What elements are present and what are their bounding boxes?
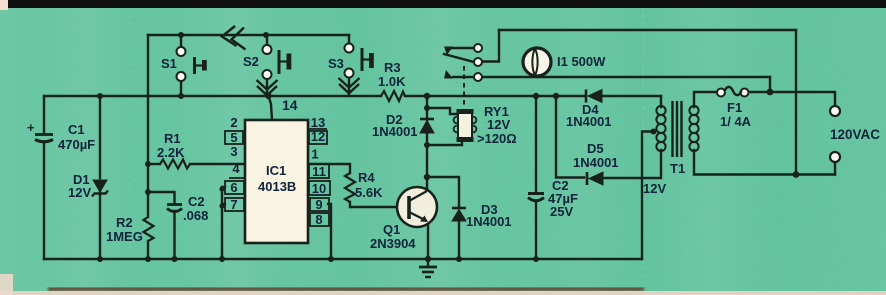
svg-text:8: 8 [315,212,322,227]
transformer T1 secondary winding [656,106,665,151]
svg-text:25V: 25V [550,204,573,219]
svg-text:T1: T1 [670,161,685,176]
resistor R4 [345,173,355,202]
wire: relay NC contact stub [452,47,474,49]
svg-text:5.6K: 5.6K [355,185,383,200]
wire-break chevrons on top rail [222,26,246,50]
transformer T1 primary winding [689,106,698,151]
relay contacts [444,44,482,81]
svg-text:14: 14 [282,97,298,113]
wire: lamp line drop to fuse junction [769,77,771,92]
pushbutton S2 [263,45,292,79]
pin 13 underline [309,128,327,130]
svg-text:Q1: Q1 [383,222,400,237]
svg-text:F1: F1 [727,100,742,115]
junction pins 6-7 ground [219,256,225,262]
capacitor C2 47uF [528,194,544,201]
svg-text:R4: R4 [358,170,375,185]
svg-text:1.0K: 1.0K [378,74,406,89]
svg-text:120VAC: 120VAC [830,127,880,142]
wire: junction to 120VAC top terminal [770,92,835,106]
wire: relay armature arm [444,54,474,62]
junction primary bottom / terminal [793,171,800,178]
wire: D3 branch [427,177,459,208]
wire: relay common to top rail [482,30,499,62]
svg-text:4013B: 4013B [258,179,296,194]
svg-text:7: 7 [230,197,237,212]
wire: C2 47uF branch [535,96,537,193]
junction D1 top [97,93,103,99]
wire: D1 branch [99,96,101,178]
capacitor C2 .068 [167,205,182,212]
pushbutton S1 [177,47,207,81]
svg-text:S1: S1 [161,56,177,71]
wire: left trunk with C1 [43,96,45,134]
junction D2 rail tap [424,93,430,99]
wire: RC node vertical from top rail [147,35,149,164]
svg-text:IC1: IC1 [266,163,286,178]
svg-text:13: 13 [311,115,325,130]
junction C2 47uF top [533,93,539,99]
wire: S2 stubs [266,35,268,45]
bottom strips [0,291,886,295]
transformer T1 core [673,101,682,157]
svg-text:I1 500W: I1 500W [557,54,606,69]
junction S1 top on rail [178,32,184,38]
svg-text:C2: C2 [188,194,205,209]
pin 6 box [225,181,244,194]
pin 12 box [309,131,327,144]
pin 7 box [225,198,244,211]
svg-text:R1: R1 [164,131,181,146]
svg-text:S3: S3 [328,56,344,71]
junction pin 7 stub [219,203,224,208]
junction R2 bottom [145,256,151,262]
svg-text:R3: R3 [384,60,401,75]
wire: pin14 riser [269,96,273,120]
junction D5 branch top [553,93,559,99]
IC1 4013B box [245,120,308,243]
svg-text:1N4001: 1N4001 [573,155,619,170]
svg-text:1N4001: 1N4001 [566,114,612,129]
svg-text:D5: D5 [587,141,604,156]
diode D5 [587,172,603,185]
svg-text:1: 1 [311,147,318,162]
svg-text:S2: S2 [243,54,259,69]
svg-text:5: 5 [230,130,237,145]
wire: rail from D4 to transformer [602,95,661,97]
junction C2 .068 branch [145,189,151,195]
svg-text:4: 4 [232,161,240,176]
wire: R4 to Q1 base [350,202,408,207]
svg-text:11: 11 [312,164,326,179]
wire: pin 1 to R4 [308,164,350,173]
wire: lamp line from relay NO contact [482,76,770,78]
svg-text:1N4001: 1N4001 [466,214,512,229]
wire: top-right rail [499,29,796,31]
resistor R2 [144,217,154,241]
wire: Q1 collector riser with D2 [426,133,428,190]
svg-text:1MEG: 1MEG [106,229,143,244]
wire: fuse to junction [748,91,770,93]
diode D4 [586,90,602,103]
junction RY1 coil top tap [424,105,430,111]
junction Q1 collector node [424,174,430,180]
pin 5 box [225,131,243,144]
wire: top-left rail [148,34,349,36]
wire: D5 branch vertical [556,96,584,178]
svg-text:6: 6 [230,180,237,195]
capacitor C1 [35,135,53,142]
svg-text:2N3904: 2N3904 [370,236,416,251]
120VAC terminals [830,106,840,116]
svg-text:9: 9 [315,197,322,212]
wire: D5 to secondary bottom [603,150,661,178]
wire: main +V rail right of R3 [405,95,585,97]
junction S2 bottom / pin14 [265,93,271,99]
wire: pins 6,7 to ground rail [222,187,225,259]
lamp I1 [523,48,551,76]
wire: center tap to ground rail [642,132,654,260]
top black bar [8,0,886,8]
junction RY1 coil bottom tap [424,142,430,148]
svg-text:.068: .068 [183,208,208,223]
junction T1 center tap [651,129,657,135]
diode D3 [452,208,466,221]
chevrons below S2 [257,80,278,95]
svg-text:12V: 12V [487,117,510,132]
svg-text:12V: 12V [643,181,666,196]
junction S2 top on rail [263,32,269,38]
svg-text:1/ 4A: 1/ 4A [720,114,752,129]
pushbutton S3 [345,44,374,78]
relay actuation dashed link [463,66,465,108]
svg-text:10: 10 [312,181,326,196]
wire: C2 .068 branch [148,192,175,204]
wire: main +V rail left of R3 [44,95,381,97]
junction Q1 emitter ground [425,256,431,262]
svg-text:2: 2 [230,115,237,130]
relay coil RY1 [454,109,477,142]
svg-text:+: + [27,120,35,135]
chevrons below S3 [339,78,360,93]
wire: S3 stub [348,35,350,44]
svg-text:C1: C1 [68,122,85,137]
junction R1 left node [145,161,151,167]
fuse F1 [717,87,749,97]
resistor R3 [381,91,405,101]
wire: pins 9,8 to ground rail [328,204,331,259]
junction D3 bottom [456,256,462,262]
svg-text:R2: R2 [116,215,133,230]
wire: R1 to pin 3 [148,163,160,165]
zener diode D1 [92,180,108,197]
transistor Q1 [397,187,437,227]
wire: RY1 coil bottom connection [427,141,462,145]
pin 11 box [309,164,329,178]
pin 10 box [309,181,330,195]
wire: bottom ground rail [44,258,642,260]
ground [419,267,437,277]
svg-text:1N4001: 1N4001 [372,124,418,139]
svg-text:12V: 12V [68,185,91,200]
wire: Q1 emitter to ground rail [427,220,429,259]
wire: R2 leads [147,164,149,217]
junction pin 6 stub [219,186,224,191]
pin 8 box [310,213,329,226]
junction D1 bottom [97,256,103,262]
svg-text:2.2K: 2.2K [157,145,185,160]
wire: RY1 coil top connection [427,108,458,114]
junction C2 47uF bottom [533,256,539,262]
pin 9 box [310,198,329,211]
junction C2 .068 bottom [172,256,178,262]
wire: primary bottom line [694,150,835,175]
wire: relay NO contact stub [453,76,474,78]
pin 4 underline [229,177,244,179]
wire: primary top to fuse [694,92,717,107]
diode D2 [420,119,434,133]
wire: right vertical drop [795,30,797,175]
svg-text:470µF: 470µF [58,137,95,152]
svg-text:3: 3 [230,144,237,159]
junction fuse / lamp / terminal [767,89,774,96]
junction S1 bottom [178,93,184,99]
junction pins 8-9 ground [328,256,334,262]
wire: 120VAC bottom terminal riser [834,162,836,175]
resistor R1 [160,160,190,169]
svg-text:>120Ω: >120Ω [477,131,517,146]
wire: S1 stubs [180,35,182,47]
